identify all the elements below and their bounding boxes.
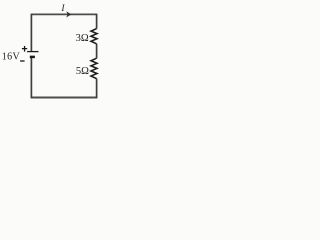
battery V1 plate + (long) [27,51,38,53]
wire bottom [31,97,98,99]
wire left lower (battery to bottom) [30,57,32,98]
svg-text:3Ω: 3Ω [76,33,89,44]
wire right lower [96,79,98,98]
current arrow [66,11,71,17]
resistor R2 zigzag [91,58,97,78]
svg-text:16V: 16V [2,51,21,62]
battery V1 plate - (short thick) [30,56,35,59]
wire top [31,13,96,15]
wire right upper [96,14,98,29]
svg-text:I: I [60,4,65,14]
wire left upper (to battery) [30,14,32,52]
battery + sign [22,46,27,52]
svg-text:5Ω: 5Ω [76,66,89,77]
battery - sign [20,60,25,62]
wire right middle [96,44,98,58]
resistor R1 zigzag [91,29,97,44]
